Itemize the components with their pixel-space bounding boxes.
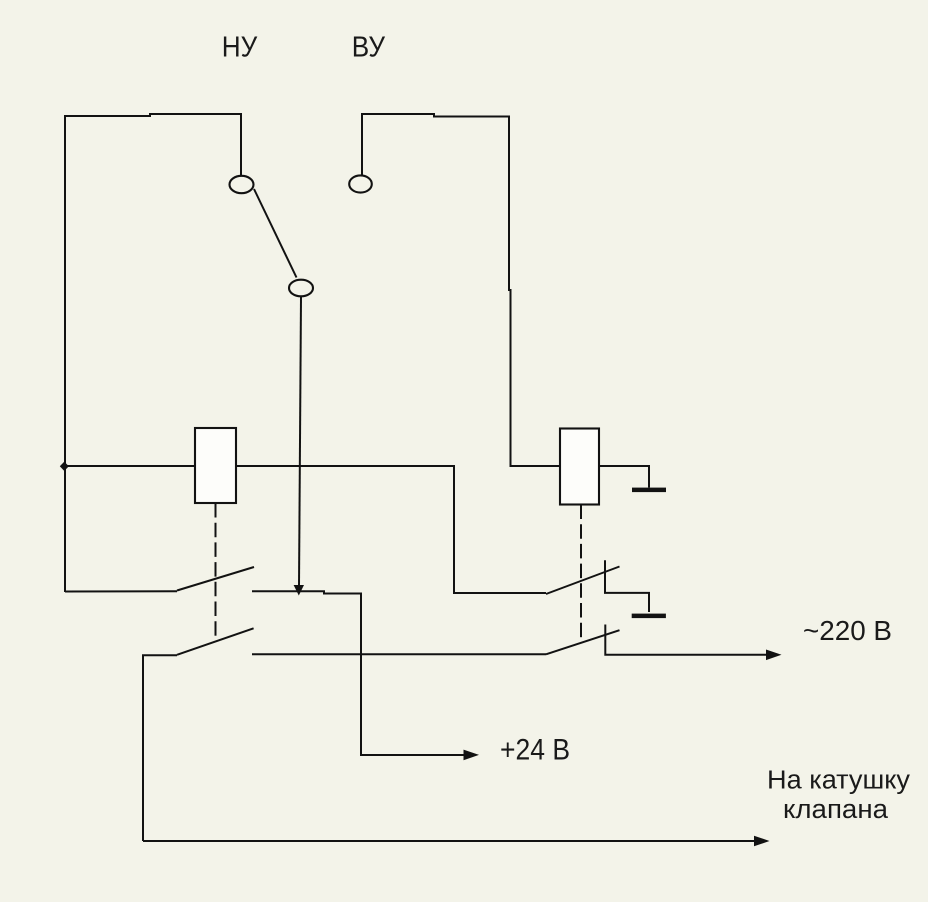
svg-text:На катушку: На катушку	[767, 767, 910, 795]
svg-text:клапана: клапана	[783, 796, 889, 824]
svg-text:ВУ: ВУ	[352, 32, 386, 64]
svg-text:~220 В: ~220 В	[803, 615, 892, 646]
svg-text:+24 В: +24 В	[500, 734, 570, 767]
svg-text:НУ: НУ	[222, 32, 258, 64]
